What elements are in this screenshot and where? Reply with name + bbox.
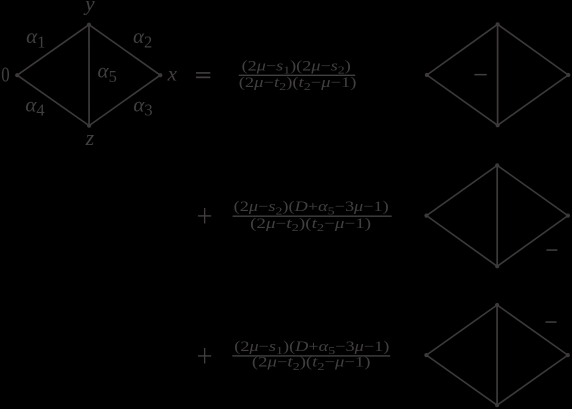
node d1 left [425,73,429,77]
svg-text:z: z [85,125,95,150]
minus label diagram 3 [546,321,557,323]
wire d2 bottom-left [427,216,498,267]
node d2 top [495,163,499,167]
wire d3 left-top [426,305,497,355]
fraction 1 bar [239,75,355,76]
node x [158,73,162,77]
node d3 bottom [495,403,499,407]
wire d1 left-top [427,24,498,75]
wire d3 right-bottom [497,355,568,405]
wire d2 right-bottom [497,216,568,267]
svg-text:x: x [167,62,178,86]
wire edge y-z (alpha5) [88,25,90,126]
wire d1 top-right [498,24,569,75]
node d3 top [495,303,499,307]
fraction 2 bar [233,216,392,217]
node 0 [15,73,19,77]
node d1 bottom [496,123,500,127]
node d2 bottom [495,264,499,268]
svg-text:(2μ−t2)(t2−μ−1): (2μ−t2)(t2−μ−1) [239,75,357,93]
wire d2 left-top [427,165,498,215]
fraction 3 bar [232,355,390,356]
wire d1 bottom-left [427,75,498,125]
node d1 right [566,73,570,77]
wire d2 middle [496,165,498,266]
wire d3 middle [496,305,498,405]
node y [87,23,91,27]
wire d2 top-right [497,165,568,215]
wire d3 bottom-left [426,355,497,405]
node d3 left [424,353,428,357]
wire d3 top-right [497,305,568,355]
svg-text:0: 0 [1,64,9,87]
wire edge x-z (alpha3) [89,75,160,125]
minus label diagram 2 [546,249,557,251]
wire edge 0-y (alpha1) [17,25,89,75]
diamond 1 edges [427,24,568,125]
equals sign [196,72,210,78]
wire edge z-0 (alpha4) [17,75,89,125]
svg-text:(2μ−t2)(t2−μ−1): (2μ−t2)(t2−μ−1) [252,355,371,373]
node d2 right [566,214,570,218]
node d2 left [424,214,428,218]
plus sign row 2 [198,208,211,224]
node d3 right [566,353,570,357]
wire d1 middle [497,24,499,125]
minus label diagram 1 [474,74,486,76]
diamond 3 edges [426,305,567,405]
svg-text:y: y [83,0,95,16]
svg-text:(2μ−s2)(D+α5−3μ−1): (2μ−s2)(D+α5−3μ−1) [234,199,389,217]
wire edge y-x (alpha2) [89,25,160,75]
plus sign row 3 [198,348,211,364]
node z [87,124,91,128]
diamond 2 edges [427,165,568,266]
node d1 top [496,22,500,26]
wire d1 right-bottom [498,75,569,125]
svg-text:(2μ−t2)(t2−μ−1): (2μ−t2)(t2−μ−1) [250,216,371,234]
